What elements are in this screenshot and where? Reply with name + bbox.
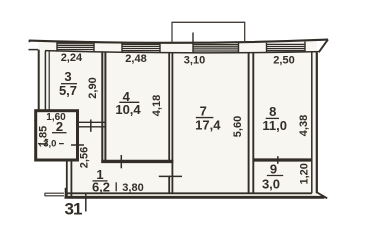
svg-text:2: 2 [56,119,63,134]
svg-text:2,50: 2,50 [273,55,294,67]
svg-text:31: 31 [65,200,82,219]
svg-text:3,0: 3,0 [262,177,280,192]
svg-text:4,18: 4,18 [151,95,163,116]
svg-text:5,60: 5,60 [232,116,244,137]
svg-text:10,4: 10,4 [115,102,141,117]
svg-text:7: 7 [200,103,207,118]
svg-text:17,4: 17,4 [195,118,221,133]
svg-text:2,90: 2,90 [87,77,99,98]
svg-text:9: 9 [270,161,277,176]
svg-text:6,2: 6,2 [92,180,110,195]
svg-text:8: 8 [269,104,276,119]
svg-text:4,38: 4,38 [298,115,310,136]
svg-text:2,24: 2,24 [61,52,83,64]
svg-text:5,7: 5,7 [59,83,77,98]
svg-text:3,80: 3,80 [122,182,143,194]
svg-text:2,56: 2,56 [79,147,91,168]
svg-text:3: 3 [64,69,71,84]
svg-text:2,48: 2,48 [125,53,146,65]
svg-text:3,0: 3,0 [43,139,56,150]
svg-text:1,20: 1,20 [299,163,311,184]
svg-text:11,0: 11,0 [262,118,287,133]
svg-text:3,10: 3,10 [184,55,205,67]
